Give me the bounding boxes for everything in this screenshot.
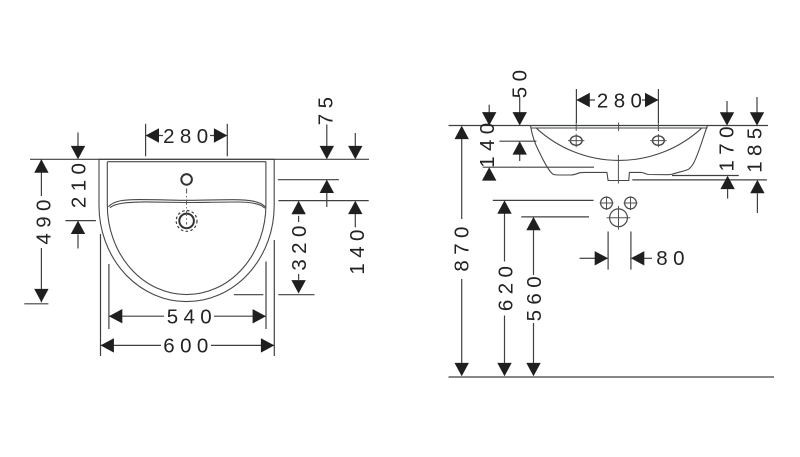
svg-text:140: 140 [476, 117, 499, 167]
svg-text:80: 80 [656, 247, 690, 270]
svg-text:75: 75 [314, 92, 337, 126]
svg-text:320: 320 [288, 220, 311, 270]
svg-text:50: 50 [508, 65, 531, 99]
svg-text:170: 170 [716, 121, 739, 171]
svg-text:620: 620 [495, 261, 518, 311]
svg-text:870: 870 [450, 221, 473, 271]
svg-text:210: 210 [67, 158, 90, 208]
svg-text:490: 490 [33, 194, 56, 244]
svg-text:280: 280 [597, 89, 647, 112]
svg-text:540: 540 [167, 306, 217, 329]
svg-text:185: 185 [744, 122, 767, 172]
svg-text:280: 280 [163, 125, 213, 148]
svg-text:600: 600 [163, 335, 213, 358]
svg-text:140: 140 [346, 224, 369, 274]
svg-text:560: 560 [523, 271, 546, 321]
